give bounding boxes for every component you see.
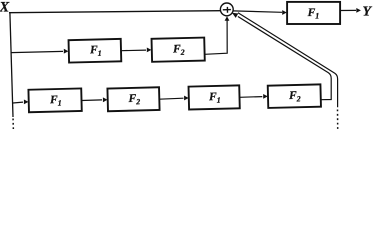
wire: top block F1 to output Y (340, 8, 361, 13)
wire: left vertical bus from input (10, 12, 13, 117)
block: F1 (row 3, first) (28, 88, 81, 112)
block: F1 (row 2, first) (69, 39, 122, 63)
wire: row-3 F1 to second F2 (240, 94, 268, 99)
svg-text:Y: Y (363, 5, 373, 20)
block: F2 (row 3, second) (107, 87, 159, 111)
wire: X input line to summing junction (9, 11, 221, 13)
svg-text:X: X (0, 0, 10, 16)
block: F1 (top row) (287, 2, 340, 24)
arrowhead of feedback lines into summing junction (232, 13, 238, 18)
wire: row-2 F1 to F2 (121, 48, 151, 53)
wire: summing junction to top block F1 (233, 10, 287, 15)
wire: row-3 F2 to second F1 (159, 96, 188, 101)
summing junction (220, 3, 233, 16)
block: F1 (row 3, third) (189, 85, 240, 109)
wire: bus to row-2 block F1 (11, 49, 68, 54)
wire: left bus dotted continuation (12, 119, 14, 130)
wire: bus to row-3 block F1 (13, 100, 29, 105)
wire: row-2 F2 up to summing junction (205, 16, 230, 54)
wire: row-3 F2 output to inner feedback line (238, 17, 331, 100)
wire: outer feedback line (from stages below) (238, 13, 338, 108)
dotted continuation of outer feedback (more branches below) (337, 110, 339, 130)
block: F2 (row 3, fourth) (268, 84, 321, 108)
block: F2 (row 2, second) (152, 38, 205, 62)
wire: row-3 F1 to F2 (82, 97, 108, 102)
